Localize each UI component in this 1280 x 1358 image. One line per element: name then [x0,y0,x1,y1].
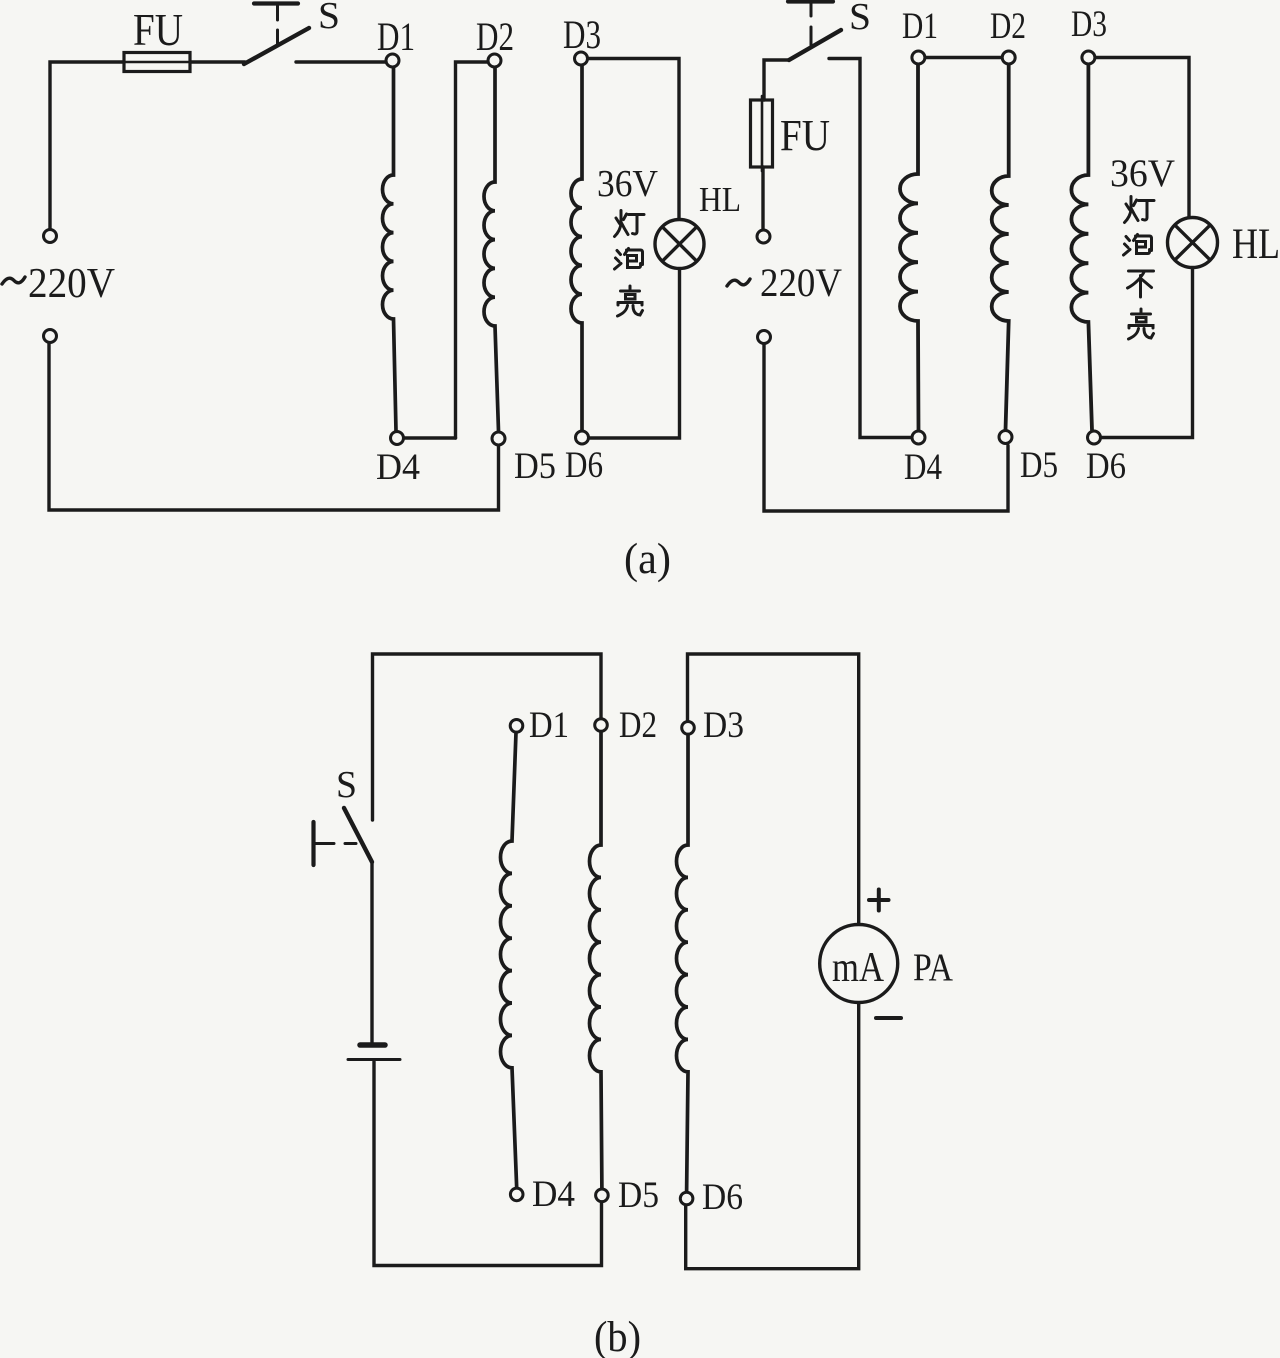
ammeter PA [820,925,898,1003]
wire D3-to-lamp [588,59,679,221]
wire D5-to-source [49,343,499,510]
terminal source lower (left) [44,330,57,343]
svg-text:D1: D1 [377,14,415,59]
terminal D4 (right) [912,431,925,444]
svg-text:D2: D2 [990,6,1026,47]
wire meter-loop top [688,654,859,925]
svg-text:D1: D1 [902,6,938,47]
svg-text:220V: 220V [760,260,842,305]
svg-text:36V: 36V [597,163,659,205]
terminal D2 (right) [1002,51,1015,64]
terminal D2 (left) [488,54,501,67]
terminal D1 (left) [386,54,399,67]
wire switch-to-D4 link (right) [829,59,912,438]
svg-text:PA: PA [913,946,953,989]
wire D3-to-lamp (right) [1095,58,1189,219]
wire link D4-D2 [456,62,489,438]
winding D1-D4 (left) [383,68,397,432]
label lamp-lights 灯 (left) [615,211,645,237]
svg-text:D5: D5 [618,1175,659,1216]
svg-text:220V: 220V [28,261,115,307]
label lamp-dark 不 (right) [1128,271,1154,297]
terminal D5 (left) [492,432,505,445]
svg-text:(b): (b) [594,1314,641,1358]
wire battery-loop bottom [374,1062,602,1266]
minus sign [876,1016,901,1020]
lamp HL (right) [1168,218,1218,268]
svg-text:D3: D3 [703,705,744,746]
svg-text:D4: D4 [904,447,942,488]
label lamp-lights 泡 (left) [615,249,643,270]
svg-text:(a): (a) [624,536,671,583]
terminal D6 (right) [1088,431,1101,444]
svg-text:S: S [336,764,357,806]
winding D2-D5 (b) [590,732,602,1190]
svg-text:S: S [318,0,340,37]
label lamp-dark 亮 (right) [1129,309,1154,339]
wire lamp-to-D6 (right) [1101,267,1193,438]
wire D4-to-link [404,436,456,439]
label ~220V (left) [2,261,115,307]
svg-text:D4: D4 [376,447,420,488]
switch S [244,4,309,65]
winding D1-D4 (b) [501,733,517,1189]
label lamp-dark 灯 (right) [1125,197,1155,223]
terminal D5 (b) [596,1189,609,1202]
svg-text:D3: D3 [1071,4,1107,45]
svg-text:FU: FU [133,4,183,55]
terminal D3 (left) [575,52,588,65]
terminal D6 (b) [680,1192,693,1205]
terminal D1 (right) [912,51,925,64]
terminal D1 (b) [510,720,523,733]
switch S (b) [314,808,373,865]
svg-text:D2: D2 [476,14,514,59]
terminal source upper (left) [44,230,57,243]
terminal source lower (right) [758,331,771,344]
label lamp-lights 亮 (left) [618,286,643,316]
terminal D5 (right) [999,431,1012,444]
wire lamp-to-D6 [589,268,680,438]
battery GB [348,1045,400,1060]
svg-text:D1: D1 [529,705,569,746]
svg-text:D5: D5 [1020,445,1058,486]
wire blade-to-battery [370,862,373,1043]
svg-text:D6: D6 [1086,446,1126,487]
fuse FU [120,53,193,72]
fuse FU (right) [751,96,773,171]
wire source-to-D5 (right) [764,344,1008,511]
svg-text:D6: D6 [565,445,603,486]
plus sign [869,890,889,911]
winding D2-D5 (right) [992,65,1009,431]
svg-text:D2: D2 [619,705,657,746]
svg-text:HL: HL [1232,221,1280,268]
wire D1-D2 (right) [925,56,1002,59]
svg-text:mA: mA [832,945,885,991]
wire meter-loop bottom [686,1002,859,1269]
svg-text:D5: D5 [514,446,556,487]
winding D3-D6 (b) [677,735,689,1193]
winding D3-D6 (left) [571,66,582,431]
label ~220V (right) [727,260,842,305]
lamp HL (left) [655,220,704,269]
terminal D4 (b) [510,1188,523,1201]
svg-text:D4: D4 [532,1174,575,1215]
terminal D3 (right) [1082,51,1095,64]
svg-text:S: S [849,0,871,38]
winding D2-D5 (left) [484,68,499,432]
wire source-to-fuse [50,62,124,229]
switch S (right) [788,2,841,61]
terminal D2 (b) [595,719,608,732]
terminal source upper (right) [757,230,770,243]
svg-text:D6: D6 [702,1177,743,1218]
label lamp-dark 泡 (right) [1124,235,1152,256]
svg-text:FU: FU [780,111,830,160]
svg-text:36V: 36V [1110,152,1175,195]
winding D1-D4 (right) [900,65,919,431]
terminal D3 (b) [682,722,695,735]
svg-text:HL: HL [699,180,741,219]
winding D3-D6 (right) [1071,65,1092,431]
terminal D4 (left) [391,432,404,445]
wire switch-to-fuse (right) [764,60,789,100]
svg-text:D3: D3 [563,12,601,57]
terminal D6 (left) [576,431,589,444]
wire battery-loop left/top [373,654,602,820]
wire fuse-to-switch [190,60,245,63]
wire fuse-to-terminal (right) [761,167,764,229]
wire switch-to-D1 [296,60,386,63]
